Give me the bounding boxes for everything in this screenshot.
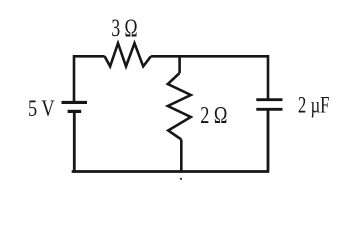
battery V1 short plate (negative) xyxy=(68,110,82,113)
svg-text:2 Ω: 2 Ω xyxy=(200,102,227,129)
battery V1 long plate (positive) xyxy=(62,101,88,104)
resistor R1 3 ohm zigzag xyxy=(105,43,151,66)
wire: top-left corner + left upper segment xyxy=(74,56,105,101)
label 5 V xyxy=(28,96,55,122)
resistor R2 2 ohm vertical zigzag xyxy=(168,73,191,140)
capacitor C1 bottom plate xyxy=(256,108,282,111)
wire: left lower segment + bottom wire + bottom-right corner xyxy=(72,110,270,172)
svg-text:2 µF: 2 µF xyxy=(298,93,330,118)
svg-text:5 V: 5 V xyxy=(28,96,55,122)
wire: top segment from R1 to top-right corner + right upper segment xyxy=(151,56,268,99)
svg-text:3 Ω: 3 Ω xyxy=(111,15,137,42)
wire: middle branch lower stub to bottom wire xyxy=(180,140,183,172)
node dot below bottom wire xyxy=(180,178,182,180)
capacitor C1 top plate xyxy=(256,98,282,101)
label 3 ohm xyxy=(111,15,137,42)
label 2 ohm xyxy=(200,102,227,129)
node A: junction of middle branch on top wire xyxy=(178,56,181,73)
label 2 uF xyxy=(298,93,330,118)
